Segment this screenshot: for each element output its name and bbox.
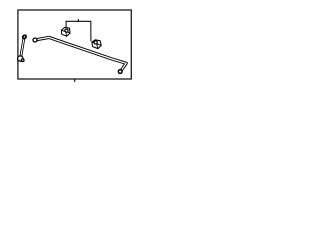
callout tick [77, 19, 79, 22]
callout bracket line [66, 21, 91, 41]
stabilizer bar tube outer [37, 37, 127, 70]
bar right end eye [118, 70, 122, 74]
link bottom boss [21, 59, 24, 62]
bar left end eye [33, 38, 37, 42]
link top ball stud ring [22, 35, 27, 40]
frame border [18, 10, 131, 79]
stabilizer link body inner white [21, 39, 24, 56]
bushing bracket left [61, 27, 70, 36]
tick mark bottom center [74, 79, 76, 82]
stabilizer bar tube inner white [37, 37, 127, 70]
stabilizer link body outer [21, 39, 24, 56]
bushing bracket right [92, 40, 101, 49]
link bottom eye ring [18, 56, 23, 61]
link top ball stud [25, 34, 26, 37]
